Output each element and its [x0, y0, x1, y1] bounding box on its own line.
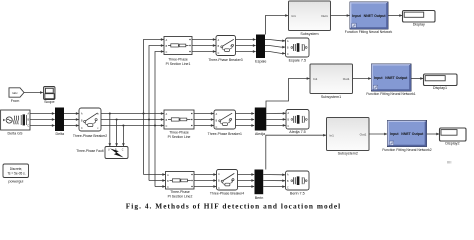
wire fault drop C — [122, 126, 124, 147]
wire Berin to load C — [263, 186, 285, 188]
svg-text:Out1: Out1 — [360, 133, 367, 137]
wire riser C — [155, 52, 164, 187]
subsystem Subsystem1 — [310, 64, 353, 99]
wire feeder row C C — [155, 186, 165, 188]
wire From to Scope — [24, 92, 43, 94]
display Display1 — [424, 74, 458, 90]
svg-text:Three-Phase Breaker1: Three-Phase Breaker1 — [208, 132, 242, 136]
load block Berin 7.5 — [286, 171, 310, 195]
wire Delta to Breaker2 C — [64, 125, 79, 127]
pi-line Three-Phase PI Section Line2 — [166, 172, 195, 199]
bus block Aledja — [255, 108, 266, 137]
display Display — [403, 11, 436, 27]
svg-text:In1: In1 — [330, 133, 335, 137]
svg-text:NNET Output: NNET Output — [401, 132, 424, 136]
subsystem Subsystem2 — [327, 118, 370, 156]
svg-text:Three-Phase Breaker2: Three-Phase Breaker2 — [73, 134, 107, 138]
From tag — [9, 88, 24, 103]
wire FFNN2 to Display2 — [427, 133, 440, 135]
bus block Delta — [55, 108, 65, 137]
wire PI to Breaker1 A — [194, 113, 214, 115]
svg-text:Aledja: Aledja — [255, 132, 266, 136]
load block Aledja 7.5 — [286, 110, 309, 135]
wire fault drop A — [109, 114, 111, 147]
wire Aledja to load A — [266, 112, 285, 114]
svg-text:Input: Input — [352, 14, 361, 18]
wire PI2 to Breaker4 C — [194, 186, 216, 188]
svg-text:Aledja 7.5: Aledja 7.5 — [289, 130, 305, 134]
scope Scope — [44, 87, 56, 104]
svg-text:Display: Display — [413, 22, 425, 26]
source Delta GS — [1, 110, 30, 136]
breaker Three-Phase Breaker3 — [208, 36, 242, 63]
wire bus C Breaker2 to PI line — [101, 125, 164, 127]
svg-text:Input: Input — [390, 132, 399, 136]
subsystem Subsystem — [289, 1, 331, 36]
wire Espale to Subsystem — [266, 16, 288, 35]
wire PI1 to Breaker3 B — [192, 45, 216, 47]
breaker Three-Phase Breaker2 — [73, 108, 107, 138]
svg-text:Three-Phase: Three-Phase — [169, 130, 189, 134]
wire Breaker4 to Berin A — [238, 174, 255, 176]
wire PI to Breaker1 B — [194, 119, 214, 121]
wire riser A — [144, 40, 164, 175]
svg-text:In1: In1 — [292, 14, 297, 18]
wire PI1 to Breaker3 C — [192, 51, 216, 53]
wire Breaker4 to Berin B — [238, 180, 255, 182]
wire GS-B to Delta — [30, 119, 55, 121]
svg-text:PI Section Line1: PI Section Line1 — [166, 62, 191, 66]
wire Subsystem2 to FFNN2 — [369, 133, 387, 135]
breaker Three-Phase Breaker1 — [208, 110, 242, 136]
wire bus A Breaker2 to PI line — [101, 113, 164, 115]
powergui block — [3, 164, 29, 184]
svg-text:IIII: IIII — [447, 160, 451, 165]
wire Breaker1 to Aledja B — [236, 119, 255, 121]
wire Delta to Breaker2 B — [64, 119, 79, 121]
svg-text:Delta: Delta — [55, 132, 65, 136]
svg-text:NNET Output: NNET Output — [364, 14, 387, 18]
wire Espale to load A — [265, 40, 285, 41]
svg-text:Ts = 5e-05 s.: Ts = 5e-05 s. — [7, 172, 25, 176]
wire feeder row C B — [149, 180, 165, 182]
svg-text:Function Fitting Neural Networ: Function Fitting Neural Network2 — [382, 148, 431, 152]
svg-text:Berin: Berin — [255, 196, 264, 200]
svg-text:Discrete,: Discrete, — [10, 167, 23, 171]
wire riser B — [149, 46, 164, 181]
svg-text:powergui: powergui — [8, 180, 23, 184]
pi-line Three-Phase PI Section Line1 — [164, 37, 192, 67]
wire Breaker1 to Aledja A — [236, 113, 255, 115]
svg-text:Three-Phase Breaker3: Three-Phase Breaker3 — [208, 58, 242, 62]
svg-text:PI Section Line2: PI Section Line2 — [168, 195, 193, 199]
wire Delta to Breaker2 A — [64, 113, 79, 115]
svg-text:From: From — [11, 99, 20, 103]
node bus junction A — [142, 112, 144, 114]
svg-text:Espale 7.5: Espale 7.5 — [289, 58, 306, 62]
bus block Berin — [255, 170, 264, 200]
wire PI2 to Breaker4 B — [194, 180, 216, 182]
node fault tap A — [109, 112, 111, 114]
nn block Function Fitting Neural Network — [345, 2, 393, 34]
node bus junction C — [154, 124, 156, 126]
svg-text:Fig. 4. Methods of HIF detecti: Fig. 4. Methods of HIF detection and loc… — [126, 201, 341, 210]
svg-text:Display2: Display2 — [445, 141, 459, 145]
nn block Function Fitting Neural Network2 — [382, 121, 431, 153]
breaker Three-Phase Breaker4 — [210, 170, 244, 196]
svg-text:In1: In1 — [313, 77, 318, 81]
svg-text:PI Section Line: PI Section Line — [168, 135, 191, 139]
svg-text:Three-Phase Fault: Three-Phase Fault — [76, 149, 103, 153]
svg-text:Display1: Display1 — [433, 86, 447, 90]
wire Berin to Subsystem2 — [266, 135, 326, 169]
wire Berin to load A — [263, 174, 285, 176]
wire fault drop B — [116, 120, 118, 147]
pi-line Three-Phase PI Section Line — [164, 110, 194, 139]
wire bus B Breaker2 to PI line — [101, 119, 164, 121]
svg-text:Three-Phase: Three-Phase — [168, 57, 188, 61]
wire Subsystem1 to FFNN1 — [353, 78, 371, 80]
svg-text:Subsystem: Subsystem — [300, 32, 318, 36]
wire Berin to load B — [263, 180, 285, 182]
wire Subsystem to FFNN — [331, 15, 350, 17]
svg-text:Out1: Out1 — [321, 14, 328, 18]
wire Breaker3 to Espale B — [236, 45, 256, 47]
wire FFNN1 to Display1 — [411, 78, 423, 80]
wire FFNN to Display — [388, 15, 402, 17]
svg-text:Espale: Espale — [255, 60, 266, 64]
wire Breaker1 to Aledja C — [236, 125, 255, 127]
wire feeder row C A — [144, 174, 166, 176]
nn block Function Fitting Neural Network1 — [366, 64, 415, 96]
svg-text:Scope: Scope — [44, 100, 54, 104]
node fault tap C — [122, 124, 124, 126]
svg-text:Subsystem2: Subsystem2 — [338, 152, 358, 156]
svg-text:NNET Output: NNET Output — [385, 76, 408, 80]
display Display2 — [440, 128, 467, 145]
wire Aledja to load B — [266, 118, 285, 120]
load block Espale 7.5 — [286, 38, 310, 62]
wire Breaker4 to Berin C — [238, 186, 255, 188]
svg-text:Delta GS: Delta GS — [8, 132, 24, 136]
svg-text:Three-Phase Breaker4: Three-Phase Breaker4 — [210, 191, 244, 195]
wire Aledja to load C — [266, 124, 285, 126]
wire Aledja to Subsystem1 — [266, 79, 309, 108]
svg-text:Out1: Out1 — [343, 77, 350, 81]
wire GS-A to Delta — [30, 113, 55, 115]
fault block Three-Phase Fault — [76, 147, 128, 159]
node fault tap B — [116, 118, 118, 120]
wire Espale to load B — [265, 46, 285, 48]
svg-text:Iabc: Iabc — [12, 91, 18, 95]
svg-text:Three-Phase: Three-Phase — [170, 190, 190, 194]
bus block Espale — [255, 35, 266, 64]
wire GS-C to Delta — [30, 125, 55, 127]
node bus junction B — [148, 118, 150, 120]
svg-text:Berin 7.5: Berin 7.5 — [290, 191, 305, 195]
wire PI1 to Breaker3 A — [192, 39, 216, 41]
wire PI2 to Breaker4 A — [194, 174, 216, 176]
wire Espale to load C — [265, 52, 285, 54]
wire PI to Breaker1 C — [194, 125, 214, 127]
svg-text:Input: Input — [374, 76, 383, 80]
svg-text:Function Fitting Neural Networ: Function Fitting Neural Network — [345, 30, 393, 34]
svg-text:Subsystem1: Subsystem1 — [321, 95, 341, 99]
wire Breaker3 to Espale A — [236, 39, 256, 41]
svg-text:Function Fitting Neural Networ: Function Fitting Neural Network1 — [366, 92, 415, 96]
wire Breaker3 to Espale C — [236, 51, 256, 53]
